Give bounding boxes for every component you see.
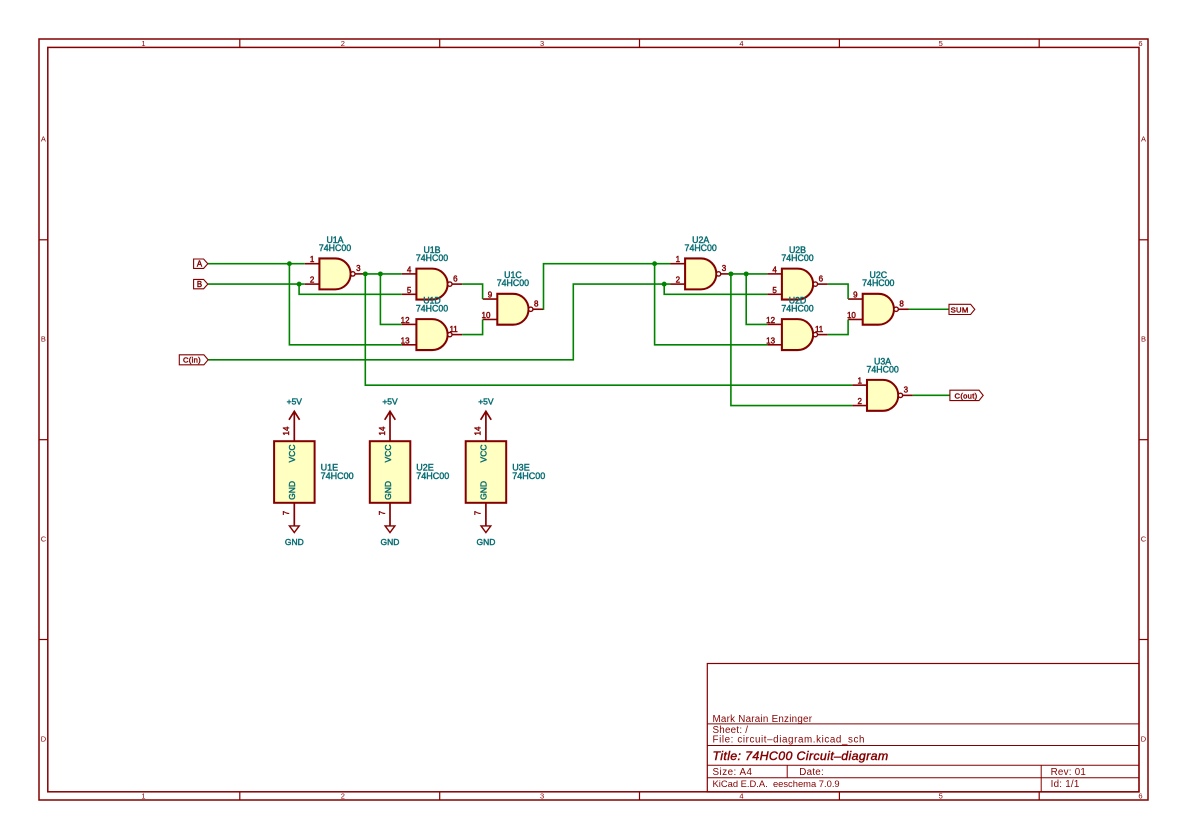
wire net N1: drop to U1D pin 12 (380, 274, 401, 325)
svg-text:1: 1 (857, 377, 862, 386)
svg-text:11: 11 (815, 325, 824, 334)
svg-text:5: 5 (772, 286, 777, 295)
NAND gate U1C (74HC00) body (497, 294, 528, 325)
U1B input pin 5 (402, 293, 417, 295)
global label C(out) (950, 390, 983, 400)
NAND gate U2A (74HC00) body (685, 258, 716, 289)
svg-text:C: C (1141, 534, 1147, 543)
U1E pin 7 (GND) (293, 503, 295, 526)
U3A output inversion bubble (898, 393, 902, 397)
svg-text:74HC00: 74HC00 (497, 278, 529, 288)
junction net N1 at U1A output (363, 271, 368, 276)
U1D output pin 11 (452, 334, 462, 336)
wire net N1: U1A output to U1B pin 4 (365, 273, 402, 275)
U1B output inversion bubble (448, 282, 452, 286)
wire net A: junction drop to U1D pin 13 (289, 264, 401, 345)
svg-text:B: B (1141, 334, 1146, 343)
svg-text:VCC: VCC (479, 445, 489, 463)
svg-text:13: 13 (401, 336, 410, 345)
U2D input pin 13 (767, 344, 782, 346)
NAND gate U2D (74HC00) body (782, 319, 813, 350)
svg-text:2: 2 (310, 276, 315, 285)
svg-text:9: 9 (488, 291, 493, 300)
svg-text:7: 7 (474, 510, 483, 515)
svg-text:4: 4 (772, 265, 777, 274)
svg-text:13: 13 (766, 336, 775, 345)
GND power symbol (U3E) (481, 526, 491, 533)
svg-text:GND: GND (285, 537, 304, 547)
svg-text:+5V: +5V (382, 396, 398, 406)
svg-text:74HC00: 74HC00 (781, 253, 813, 263)
wire net S1: U1C output to U2A pin 1 (543, 264, 670, 310)
power unit U2E (74HC00 unit E) body (370, 441, 411, 503)
NAND gate U1B (74HC00) body (416, 269, 447, 300)
global label SUM (949, 304, 975, 314)
svg-text:4: 4 (739, 39, 743, 48)
wire net B: junction drop to U1B pin 5 (299, 284, 402, 294)
svg-text:Size: A4: Size: A4 (713, 767, 753, 778)
svg-text:6: 6 (453, 274, 458, 283)
U3A input pin 1 (852, 384, 867, 386)
svg-text:GND: GND (381, 537, 400, 547)
U1C output inversion bubble (529, 307, 533, 311)
global label C(in) (179, 355, 208, 365)
+5V power symbol arrow (U2E) (385, 411, 396, 420)
wire net S1: junction drop to U2D pin 13 (655, 264, 768, 345)
svg-text:5: 5 (407, 286, 412, 295)
svg-text:VCC: VCC (287, 445, 297, 463)
svg-text:Date:: Date: (799, 767, 824, 778)
svg-text:C: C (41, 534, 47, 543)
svg-text:11: 11 (449, 325, 458, 334)
U2D input pin 12 (767, 323, 782, 325)
svg-text:74HC00: 74HC00 (862, 278, 894, 288)
U1D input pin 13 (402, 344, 417, 346)
svg-text:3: 3 (356, 264, 361, 273)
U1C input pin 9 (483, 298, 498, 300)
svg-text:A: A (197, 260, 203, 269)
wire U2C output to SUM label (909, 308, 950, 310)
svg-text:3: 3 (540, 39, 544, 48)
svg-text:KiCad E.D.A. eeschema 7.0.9: KiCad E.D.A. eeschema 7.0.9 (713, 778, 840, 789)
svg-text:VCC: VCC (383, 445, 393, 463)
svg-text:GND: GND (476, 537, 495, 547)
svg-text:10: 10 (847, 311, 856, 320)
svg-text:1: 1 (676, 255, 681, 264)
svg-text:6: 6 (1138, 792, 1142, 801)
svg-text:+5V: +5V (478, 396, 494, 406)
svg-text:1: 1 (141, 792, 145, 801)
svg-text:74HC00: 74HC00 (416, 253, 448, 263)
junction net Cin (662, 282, 667, 287)
svg-text:A: A (1141, 134, 1146, 143)
svg-text:GND: GND (479, 481, 489, 500)
title block (707, 664, 1139, 793)
U3E pin 14 (VCC) (485, 411, 487, 441)
U2E pin 14 (VCC) (389, 411, 391, 441)
U1B output pin 6 (452, 283, 462, 285)
wire U2D output to U2C pin 10 (828, 319, 848, 334)
svg-text:File: circuit–diagram.kicad_sc: File: circuit–diagram.kicad_sch (713, 734, 866, 745)
U3E pin 7 (GND) (485, 503, 487, 526)
svg-text:7: 7 (282, 510, 291, 515)
svg-text:74HC00: 74HC00 (866, 364, 898, 374)
wire net N1: drop to U3A pin 1 (365, 274, 852, 385)
svg-text:74HC00: 74HC00 (416, 304, 448, 314)
U2E pin 7 (GND) (389, 503, 391, 526)
svg-text:2: 2 (676, 276, 681, 285)
wire U1D output to U1C pin 10 (462, 319, 482, 334)
svg-text:5: 5 (939, 39, 943, 48)
svg-text:9: 9 (853, 291, 858, 300)
U2C output pin 8 (898, 308, 908, 310)
svg-text:12: 12 (766, 316, 775, 325)
junction net A (287, 261, 292, 266)
svg-text:Rev: 01: Rev: 01 (1051, 767, 1087, 778)
NAND gate U2C (74HC00) body (863, 294, 894, 325)
U2A output pin 3 (721, 273, 731, 275)
U2A input pin 2 (671, 283, 686, 285)
U3A input pin 2 (852, 405, 867, 407)
wire net N2: U2A output to U2B pin 4 (731, 273, 767, 275)
wire net N2: drop to U2D pin 12 (746, 274, 767, 325)
svg-text:10: 10 (482, 311, 491, 320)
svg-text:1: 1 (141, 39, 145, 48)
junction net N2 branch (744, 271, 749, 276)
U2C input pin 10 (848, 318, 863, 320)
svg-text:D: D (41, 734, 47, 743)
NAND gate U3A (74HC00) body (867, 380, 898, 411)
svg-text:Id: 1/1: Id: 1/1 (1051, 779, 1080, 790)
U1A output pin 3 (355, 273, 365, 275)
global label A (194, 259, 208, 268)
GND power symbol (U2E) (385, 526, 395, 533)
U1A input pin 1 (305, 263, 320, 265)
wire net B: label B to U1A pin 2 (208, 283, 305, 285)
svg-text:14: 14 (474, 426, 483, 435)
svg-text:14: 14 (378, 426, 387, 435)
U2A input pin 1 (671, 263, 686, 265)
svg-text:GND: GND (383, 481, 393, 500)
svg-text:B: B (197, 280, 203, 289)
U2B input pin 5 (767, 293, 782, 295)
svg-text:12: 12 (401, 316, 410, 325)
wire net N2: drop to U3A pin 2 (731, 274, 853, 406)
svg-text:3: 3 (540, 792, 544, 801)
svg-text:GND: GND (287, 481, 297, 500)
U2A output inversion bubble (716, 272, 720, 276)
svg-text:A: A (41, 134, 46, 143)
svg-text:C(in): C(in) (183, 356, 201, 365)
svg-text:74HC00: 74HC00 (321, 471, 354, 481)
U2D output pin 11 (818, 334, 828, 336)
junction net B (297, 282, 302, 287)
svg-text:8: 8 (534, 300, 539, 309)
svg-text:2: 2 (341, 792, 345, 801)
power unit U1E (74HC00 unit E) body (274, 441, 315, 503)
svg-text:3: 3 (904, 386, 909, 395)
wire net A: label A to U1A pin 1 (208, 263, 305, 265)
U2B input pin 4 (767, 273, 782, 275)
svg-text:+5V: +5V (287, 396, 303, 406)
NAND gate U1A (74HC00) body (319, 258, 350, 289)
junction net N2 at U2A output (728, 271, 733, 276)
GND power symbol (U1E) (289, 526, 299, 533)
wire U1B output to U1C pin 9 (462, 284, 482, 299)
svg-text:74HC00: 74HC00 (319, 243, 351, 253)
U1C input pin 10 (483, 318, 498, 320)
NAND gate U1D (74HC00) body (416, 319, 447, 350)
svg-text:74HC00: 74HC00 (685, 243, 717, 253)
junction net S1 (652, 261, 657, 266)
U3A output pin 3 (903, 394, 913, 396)
U1D input pin 12 (402, 323, 417, 325)
U1A input pin 2 (305, 283, 320, 285)
+5V power symbol arrow (U3E) (481, 411, 492, 420)
svg-text:14: 14 (282, 426, 291, 435)
svg-text:5: 5 (939, 792, 943, 801)
NAND gate U2B (74HC00) body (782, 269, 813, 300)
svg-text:3: 3 (722, 264, 727, 273)
wire U3A output to C(out) label (913, 394, 950, 396)
+5V power symbol arrow (U1E) (289, 411, 300, 420)
U2C output inversion bubble (894, 307, 898, 311)
U1C output pin 8 (533, 308, 543, 310)
svg-text:74HC00: 74HC00 (416, 471, 449, 481)
wire net Cin: junction drop to U2B pin 5 (664, 284, 767, 294)
U1B input pin 4 (402, 273, 417, 275)
junction net N1 branch (378, 271, 383, 276)
U1A output inversion bubble (351, 272, 355, 276)
U1E pin 14 (VCC) (293, 411, 295, 441)
svg-text:SUM: SUM (951, 305, 969, 314)
wire net Cin: label C(in) to U2A pin 2 (208, 284, 670, 360)
svg-text:1: 1 (310, 255, 315, 264)
power unit U3E (74HC00 unit E) body (466, 441, 507, 503)
U2B output pin 6 (818, 283, 828, 285)
U1D output inversion bubble (448, 332, 452, 336)
svg-text:Mark Narain Enzinger: Mark Narain Enzinger (713, 714, 813, 725)
U2B output inversion bubble (813, 282, 817, 286)
svg-text:2: 2 (857, 397, 862, 406)
svg-text:4: 4 (407, 265, 412, 274)
svg-text:4: 4 (739, 792, 743, 801)
svg-text:6: 6 (819, 274, 824, 283)
svg-text:B: B (41, 334, 46, 343)
svg-text:8: 8 (899, 300, 904, 309)
U2C input pin 9 (848, 298, 863, 300)
svg-text:74HC00: 74HC00 (781, 304, 813, 314)
svg-text:C(out): C(out) (955, 391, 978, 400)
svg-text:2: 2 (341, 39, 345, 48)
U2D output inversion bubble (813, 332, 817, 336)
wire U2B output to U2C pin 9 (828, 284, 848, 299)
svg-text:7: 7 (378, 510, 387, 515)
svg-text:6: 6 (1138, 39, 1142, 48)
svg-text:74HC00: 74HC00 (512, 471, 545, 481)
svg-text:D: D (1141, 734, 1147, 743)
svg-text:Title: 74HC00 Circuit–diagram: Title: 74HC00 Circuit–diagram (713, 749, 889, 763)
global label B (194, 279, 208, 288)
